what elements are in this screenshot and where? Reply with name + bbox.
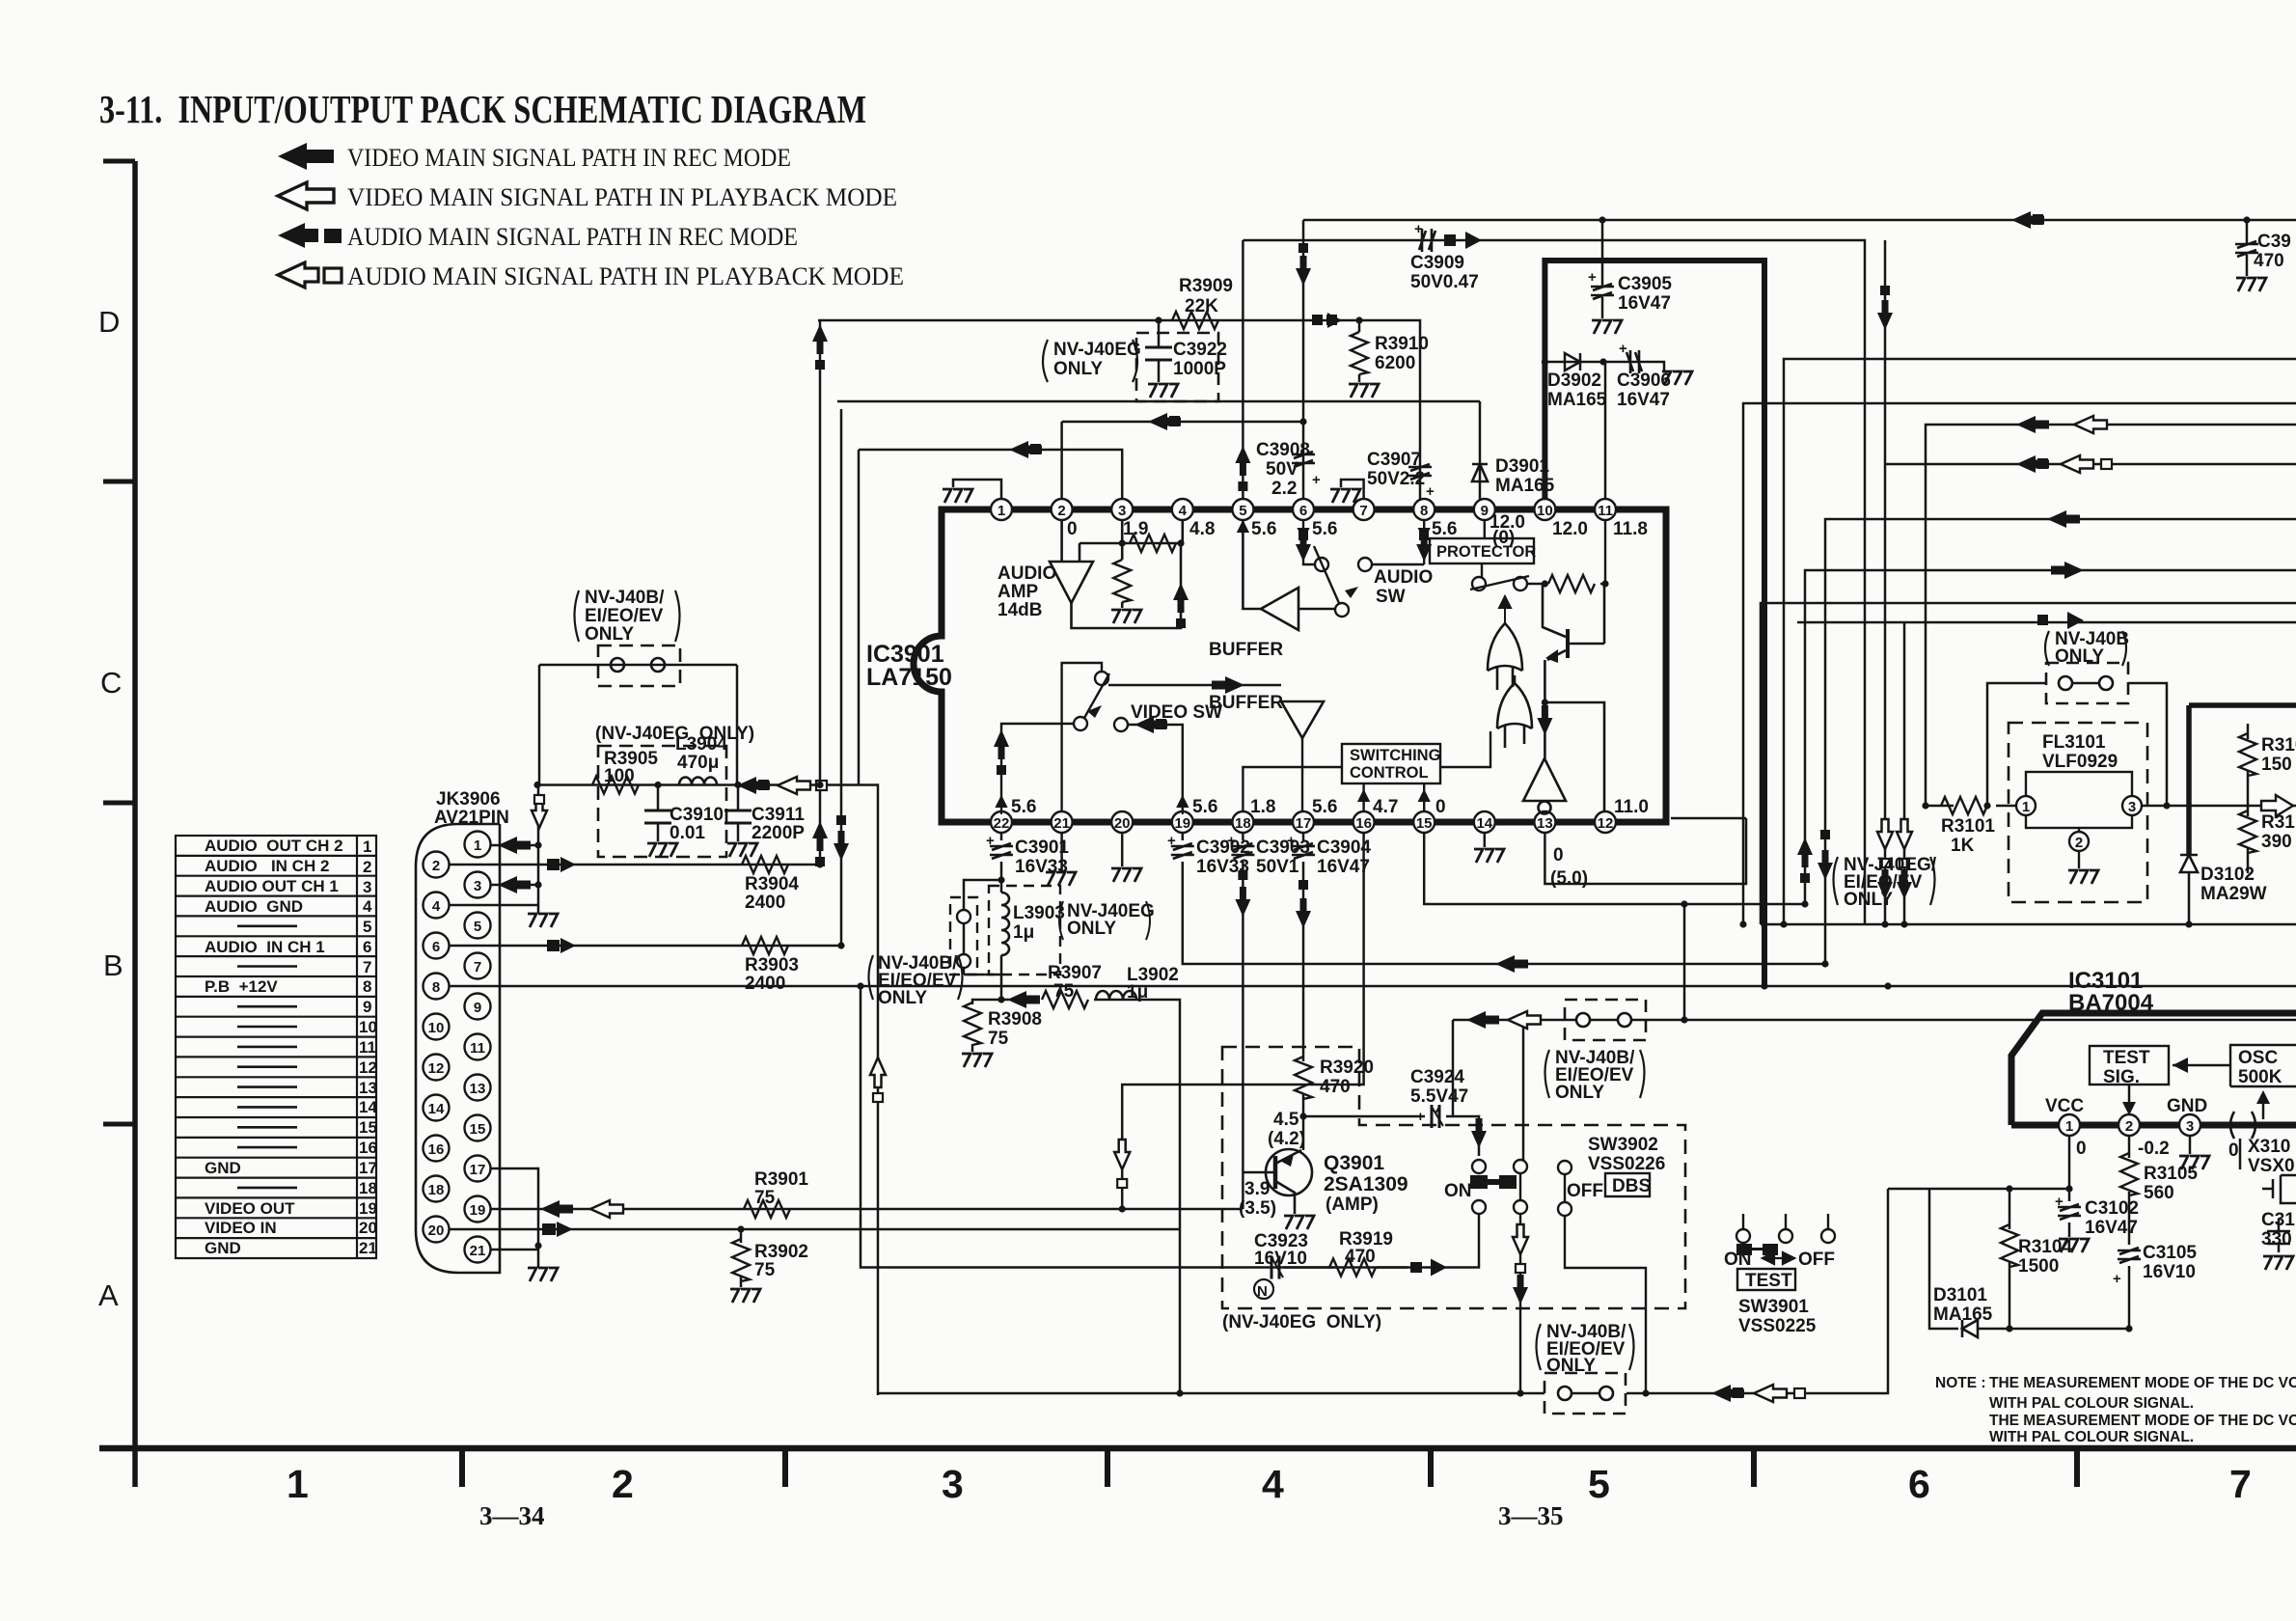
svg-text:16: 16 bbox=[359, 1139, 377, 1157]
svg-text:1: 1 bbox=[2065, 1118, 2073, 1135]
svg-text:TEST: TEST bbox=[1745, 1271, 1792, 1291]
TEST SIG to pin2 bbox=[2128, 1085, 2131, 1110]
internal resistors and ground pin3/pin4 bbox=[1111, 535, 1176, 623]
svg-text:ONLY: ONLY bbox=[1067, 919, 1116, 939]
svg-text:50V2.2: 50V2.2 bbox=[1367, 469, 1425, 489]
C3907 on pin8 wire bbox=[1408, 464, 1432, 480]
arrows y=332 bbox=[812, 313, 1342, 370]
svg-text:16V47: 16V47 bbox=[1317, 857, 1370, 877]
svg-text:3: 3 bbox=[2186, 1118, 2194, 1135]
svg-text:19: 19 bbox=[1174, 815, 1190, 832]
svg-text:16V47: 16V47 bbox=[1617, 390, 1670, 410]
svg-text:5.6: 5.6 bbox=[1192, 797, 1217, 817]
svg-text:16V47: 16V47 bbox=[2085, 1218, 2138, 1238]
svg-text:C3910: C3910 bbox=[670, 805, 724, 825]
svg-text:75: 75 bbox=[754, 1260, 776, 1280]
wire audio out node bbox=[537, 785, 878, 1396]
ground pin4 node bbox=[528, 905, 558, 927]
arrows y=445 y=466 bbox=[1009, 413, 1181, 458]
R3903 bbox=[742, 937, 788, 954]
svg-text:560: 560 bbox=[2144, 1183, 2174, 1203]
svg-text:17: 17 bbox=[470, 1162, 486, 1178]
break parens on pin row bbox=[2230, 1112, 2255, 1139]
wire pin17/pin21 GND bbox=[491, 1168, 539, 1250]
svg-text:+: + bbox=[2113, 1271, 2121, 1287]
svg-text:OFF: OFF bbox=[1798, 1250, 1835, 1270]
svg-text:11: 11 bbox=[470, 1040, 485, 1057]
wire node vertical x558 bbox=[537, 784, 540, 905]
svg-text:D3901: D3901 bbox=[1495, 456, 1549, 477]
wire bus G to right edge bbox=[1761, 603, 2296, 924]
svg-text:PROTECTOR: PROTECTOR bbox=[1436, 543, 1536, 561]
svg-text:1.8: 1.8 bbox=[1250, 797, 1275, 817]
video buffer triangle bbox=[1281, 701, 1324, 738]
svg-text:2: 2 bbox=[1057, 503, 1065, 519]
svg-text:MA165: MA165 bbox=[1933, 1305, 1993, 1325]
L3904 coil bbox=[679, 778, 717, 785]
svg-text:OSC: OSC bbox=[2238, 1048, 2278, 1068]
svg-text:EI/EO/EV: EI/EO/EV bbox=[585, 606, 664, 626]
svg-text:ONLY: ONLY bbox=[878, 988, 927, 1008]
svg-text:1: 1 bbox=[287, 1462, 309, 1506]
voltage labels bottom pins bbox=[1011, 797, 1649, 889]
svg-text:1μ: 1μ bbox=[1127, 982, 1148, 1003]
wire y416 to pin9 bbox=[837, 400, 1480, 403]
svg-text:3—35: 3—35 bbox=[1498, 1501, 1564, 1530]
svg-text:AUDIO IN CH 1: AUDIO IN CH 1 bbox=[205, 938, 325, 956]
pin name table bbox=[176, 836, 376, 1258]
svg-text:100: 100 bbox=[604, 766, 635, 786]
svg-text:(NV-J40EG ONLY): (NV-J40EG ONLY) bbox=[1222, 1312, 1381, 1333]
wire y1057 playback bbox=[1453, 1019, 2296, 1022]
FL3101 body with pins 1 2 3 bbox=[2016, 772, 2142, 868]
svg-text:7: 7 bbox=[1359, 503, 1367, 519]
wire IC3101 supply bbox=[1888, 1188, 2069, 1191]
svg-text:VSS0226: VSS0226 bbox=[1588, 1154, 1665, 1174]
frame left border line bbox=[132, 161, 138, 1487]
wire pin2 AUDIO IN CH2 bbox=[450, 864, 821, 866]
svg-text:8: 8 bbox=[363, 977, 371, 996]
D3902 C3906 stub bbox=[1544, 353, 1664, 499]
svg-text:SW: SW bbox=[1376, 587, 1406, 607]
svg-text:18: 18 bbox=[428, 1182, 445, 1198]
wire pin3 feed bbox=[859, 450, 1122, 784]
svg-text:VIDEO OUT: VIDEO OUT bbox=[205, 1199, 295, 1218]
svg-text:0.01: 0.01 bbox=[670, 823, 705, 843]
wire bus D to right edge bbox=[1825, 519, 2296, 964]
pin19 C3902 bbox=[1183, 833, 1825, 964]
TEST SIG block bbox=[2090, 1046, 2169, 1085]
C3910 bbox=[644, 785, 671, 842]
wire bus A to right edge bbox=[1743, 403, 2296, 924]
svg-text:NV-J40B/: NV-J40B/ bbox=[585, 588, 665, 608]
svg-text:LA7150: LA7150 bbox=[866, 664, 952, 691]
svg-text:0: 0 bbox=[2228, 1140, 2239, 1161]
ground pin17/21 node bbox=[528, 1246, 558, 1281]
thick rail pin10 bbox=[1544, 261, 1764, 986]
svg-text:ONLY: ONLY bbox=[1844, 890, 1893, 910]
svg-text:+: + bbox=[1619, 341, 1627, 357]
svg-text:ON: ON bbox=[1444, 1181, 1472, 1201]
svg-text:11.0: 11.0 bbox=[1614, 797, 1649, 817]
svg-text:15: 15 bbox=[359, 1118, 377, 1137]
svg-text:22K: 22K bbox=[1185, 296, 1218, 316]
svg-text:2: 2 bbox=[612, 1462, 634, 1506]
pin16 chain to video out bbox=[1122, 833, 1363, 1209]
D3901 on pin9 wire bbox=[1472, 464, 1488, 481]
or-gate 1 bbox=[1488, 623, 1522, 671]
svg-text:ONLY: ONLY bbox=[2055, 646, 2104, 667]
arrows on connector wires bbox=[498, 777, 886, 1237]
svg-text:C: C bbox=[100, 666, 122, 700]
svg-text:R3104: R3104 bbox=[2018, 1237, 2072, 1257]
svg-text:5: 5 bbox=[474, 919, 481, 935]
svg-text:470: 470 bbox=[1345, 1247, 1376, 1267]
hollow arrows on x910 vertical bbox=[870, 1058, 886, 1087]
wire pin15 bbox=[1424, 833, 1805, 904]
svg-text:7: 7 bbox=[474, 959, 481, 975]
video switch contacts bbox=[1001, 663, 1324, 811]
svg-text:ONLY: ONLY bbox=[1053, 359, 1103, 379]
svg-text:16V47: 16V47 bbox=[1618, 293, 1671, 314]
svg-text:5.6: 5.6 bbox=[1011, 797, 1036, 817]
svg-text:75: 75 bbox=[754, 1188, 776, 1208]
svg-text:P.B +12V: P.B +12V bbox=[205, 977, 278, 996]
junction dots bbox=[533, 782, 863, 1250]
svg-text:L3903: L3903 bbox=[1013, 903, 1065, 923]
svg-text:14dB: 14dB bbox=[998, 600, 1042, 620]
svg-text:21: 21 bbox=[470, 1243, 486, 1259]
svg-text:D3902: D3902 bbox=[1547, 371, 1601, 391]
svg-text:C3906: C3906 bbox=[1617, 371, 1671, 391]
arrows on y=228 right bbox=[2011, 211, 2044, 229]
svg-text:5: 5 bbox=[1588, 1462, 1610, 1506]
comparator triangle with bubble pin13 bbox=[1523, 758, 1566, 814]
svg-text:11: 11 bbox=[359, 1038, 376, 1057]
pin21 pin20 grounds inside bottom bbox=[1062, 833, 1123, 870]
jumper on y=1057 bbox=[1565, 1000, 1646, 1040]
svg-text:C3907: C3907 bbox=[1367, 450, 1421, 470]
switch SW3902 VSS0226 contacts bbox=[1472, 1160, 1646, 1393]
wire pin3 stub bbox=[491, 884, 539, 887]
wire bus E to right edge bbox=[1885, 240, 2296, 924]
svg-text:3: 3 bbox=[1118, 503, 1126, 519]
wire D3101 branch bbox=[1929, 1189, 2129, 1329]
svg-text:12: 12 bbox=[359, 1058, 377, 1077]
svg-text:3-11. INPUT/OUTPUT PACK SCHEM: 3-11. INPUT/OUTPUT PACK SCHEMATIC DIAGRA… bbox=[99, 87, 866, 131]
bold arrow on pin6 wire bbox=[1296, 243, 1311, 286]
svg-text:ONLY: ONLY bbox=[585, 624, 634, 645]
svg-text:4.8: 4.8 bbox=[1189, 519, 1215, 539]
svg-text:C3905: C3905 bbox=[1618, 274, 1672, 294]
svg-text:WITH PAL COLOUR SIGNAL.: WITH PAL COLOUR SIGNAL. bbox=[1989, 1429, 2194, 1445]
svg-text:(4.2): (4.2) bbox=[1268, 1129, 1305, 1149]
wire pin16 playback video bbox=[1122, 833, 1363, 1209]
svg-text:R3901: R3901 bbox=[754, 1169, 808, 1190]
R3920 bbox=[1295, 1057, 1312, 1099]
NV-J40B jumper bbox=[2046, 663, 2128, 703]
R3902 bbox=[732, 1229, 750, 1287]
svg-text:13: 13 bbox=[359, 1079, 377, 1097]
svg-text:3: 3 bbox=[2128, 799, 2136, 815]
svg-text:19: 19 bbox=[470, 1202, 486, 1219]
svg-text:1: 1 bbox=[998, 503, 1005, 519]
svg-text:8: 8 bbox=[1420, 503, 1428, 519]
svg-text:3: 3 bbox=[474, 878, 481, 894]
svg-text:2: 2 bbox=[2075, 835, 2083, 851]
wire y228 bus bbox=[1303, 219, 2296, 222]
svg-text:2.2: 2.2 bbox=[1271, 479, 1297, 499]
svg-text:5: 5 bbox=[1239, 503, 1246, 519]
svg-text:C3105: C3105 bbox=[2143, 1243, 2197, 1263]
wire pin1 stub bbox=[491, 844, 539, 847]
svg-text:+: + bbox=[1167, 833, 1176, 849]
svg-text:+: + bbox=[1227, 833, 1236, 849]
OSC 500K block bbox=[2230, 1045, 2296, 1086]
filter output arrows bbox=[737, 777, 770, 794]
svg-text:C3908: C3908 bbox=[1256, 440, 1310, 460]
svg-text:16V33: 16V33 bbox=[1015, 857, 1068, 877]
wire pin4 to ground bbox=[450, 904, 539, 907]
dash rows bbox=[237, 926, 297, 1188]
or-gate 2 bbox=[1497, 683, 1532, 728]
svg-text:21: 21 bbox=[359, 1239, 377, 1257]
right edge resistors bbox=[2247, 724, 2250, 873]
wire pin19 VIDEO OUT bbox=[491, 1208, 1244, 1211]
pin17 C3904 down to R3920 bbox=[1302, 833, 1305, 1150]
svg-text:R3105: R3105 bbox=[2144, 1164, 2198, 1184]
IC3901 pins bottom bbox=[991, 811, 1012, 833]
wire video in drop bbox=[1179, 1229, 1182, 1393]
svg-text:6: 6 bbox=[1299, 503, 1307, 519]
svg-text:VSS0225: VSS0225 bbox=[1738, 1316, 1817, 1336]
svg-text:9: 9 bbox=[1481, 503, 1489, 519]
svg-text:9: 9 bbox=[474, 1000, 481, 1016]
svg-text:C3911: C3911 bbox=[752, 805, 805, 825]
NV-J40EG filter dashed box bbox=[598, 746, 726, 857]
svg-text:THE MEASUREMENT MODE OF THE DC: THE MEASUREMENT MODE OF THE DC VOLTAGE O… bbox=[1989, 1413, 2296, 1429]
svg-text:7: 7 bbox=[2229, 1462, 2252, 1506]
svg-text:R3910: R3910 bbox=[1375, 334, 1429, 354]
svg-text:75: 75 bbox=[988, 1029, 1009, 1049]
svg-text:MA29W: MA29W bbox=[2200, 884, 2267, 904]
svg-text:18: 18 bbox=[359, 1179, 377, 1197]
svg-text:17: 17 bbox=[359, 1159, 377, 1177]
svg-text:VIDEO MAIN SIGNAL PATH IN REC: VIDEO MAIN SIGNAL PATH IN REC MODE bbox=[347, 144, 791, 172]
pin14 ground below bbox=[1484, 833, 1487, 847]
svg-text:C3901: C3901 bbox=[1015, 838, 1069, 858]
svg-text:14: 14 bbox=[428, 1101, 445, 1117]
frame row ticks bbox=[103, 161, 135, 1124]
svg-text:3: 3 bbox=[363, 878, 371, 896]
diode D3101 MA165 bbox=[1962, 1320, 1978, 1337]
svg-text:1K: 1K bbox=[1951, 836, 1975, 856]
wire vertical audio ch1 bbox=[840, 409, 843, 946]
svg-text:NV-J40EG: NV-J40EG bbox=[1053, 340, 1141, 360]
C3911 bbox=[724, 785, 752, 842]
H bracket bbox=[1470, 1175, 1517, 1189]
NV-J40B jumper box top bbox=[598, 646, 680, 686]
arrows on SW3902 drop bbox=[1513, 1224, 1528, 1305]
svg-text:0: 0 bbox=[2076, 1139, 2087, 1159]
pin13 chain right bbox=[1544, 818, 1746, 884]
R3910 bbox=[1358, 320, 1361, 382]
svg-text:15: 15 bbox=[470, 1121, 486, 1138]
svg-text:OFF: OFF bbox=[1567, 1181, 1603, 1201]
switch SW3901 VSS0225 contacts bbox=[1736, 1214, 1835, 1243]
svg-text:1μ: 1μ bbox=[1013, 922, 1034, 943]
wire pin13 5V bbox=[1544, 818, 1746, 884]
svg-text:+: + bbox=[1414, 221, 1423, 237]
svg-text:R3902: R3902 bbox=[754, 1242, 808, 1262]
L3902 bbox=[1096, 991, 1136, 1000]
arrows / C3909 on y=249 bbox=[1419, 229, 1435, 252]
svg-text:20: 20 bbox=[359, 1219, 377, 1237]
svg-text:-0.2: -0.2 bbox=[2138, 1139, 2170, 1159]
frame column ticks bbox=[462, 1448, 2077, 1487]
svg-text:SW3902: SW3902 bbox=[1588, 1135, 1658, 1155]
svg-text:5.6: 5.6 bbox=[1432, 519, 1457, 539]
svg-text:AUDIO IN CH 2: AUDIO IN CH 2 bbox=[205, 857, 329, 875]
switching control block bbox=[1342, 744, 1440, 783]
wire pin1 and pin7 ground stubs bbox=[953, 480, 1364, 499]
wire audio rec bus y332 bbox=[818, 320, 1420, 499]
svg-text:D3102: D3102 bbox=[2200, 865, 2255, 885]
svg-text:2200P: 2200P bbox=[752, 823, 805, 843]
svg-text:12: 12 bbox=[1598, 815, 1614, 832]
svg-text:(3.5): (3.5) bbox=[1239, 1198, 1276, 1219]
IC3901 pins 1-11 top, 22-12 bottom bbox=[991, 499, 1616, 833]
svg-text:5.6: 5.6 bbox=[1312, 519, 1337, 539]
svg-text:6: 6 bbox=[1908, 1462, 1930, 1506]
svg-text:VIDEO IN: VIDEO IN bbox=[205, 1219, 277, 1237]
C3924 wire bbox=[1303, 1116, 1479, 1156]
transistor inside IC3901 bbox=[1543, 584, 1566, 637]
svg-text:B: B bbox=[103, 948, 123, 982]
bold arrow on pin5 wire bbox=[1235, 446, 1250, 491]
svg-text:ON: ON bbox=[1724, 1250, 1752, 1270]
svg-text:1000P: 1000P bbox=[1173, 359, 1226, 379]
svg-text:14: 14 bbox=[1476, 815, 1492, 832]
svg-text:1: 1 bbox=[2022, 799, 2030, 815]
svg-text:CONTROL: CONTROL bbox=[1350, 764, 1429, 782]
big dashed box bbox=[1222, 1047, 1685, 1308]
svg-text:(5.0): (5.0) bbox=[1550, 868, 1588, 889]
R3907 bbox=[1042, 991, 1088, 1008]
svg-text:GND: GND bbox=[205, 1239, 241, 1257]
svg-text:2: 2 bbox=[432, 858, 440, 874]
svg-text:N: N bbox=[1257, 1283, 1268, 1300]
audio amp triangle inside IC3901 bbox=[1050, 520, 1183, 628]
svg-text:50V: 50V bbox=[1266, 459, 1298, 480]
C3922 dashed box NV-J40EG bbox=[1136, 320, 1218, 401]
wire bus F to right edge bbox=[1926, 425, 2296, 806]
svg-text:C3922: C3922 bbox=[1173, 340, 1227, 360]
C3923 R3919 on +12V wire bbox=[1271, 1256, 1283, 1279]
svg-text:2SA1309: 2SA1309 bbox=[1324, 1173, 1408, 1195]
svg-text:5.6: 5.6 bbox=[1251, 519, 1276, 539]
svg-text:17: 17 bbox=[1296, 815, 1312, 832]
svg-text:AUDIO: AUDIO bbox=[1374, 567, 1433, 588]
wire bus H to right edge bbox=[1797, 622, 2296, 924]
svg-text:D3101: D3101 bbox=[1933, 1285, 1987, 1305]
svg-text:500K: 500K bbox=[2238, 1067, 2282, 1087]
svg-text:JK3906: JK3906 bbox=[436, 789, 501, 810]
protector block bbox=[1430, 538, 1534, 563]
svg-text:4: 4 bbox=[1262, 1462, 1284, 1506]
svg-text:X310: X310 bbox=[2248, 1137, 2290, 1157]
svg-text:AUDIO: AUDIO bbox=[998, 563, 1056, 584]
svg-text:AUDIO GND: AUDIO GND bbox=[205, 897, 303, 916]
svg-text:AUDIO OUT CH 2: AUDIO OUT CH 2 bbox=[205, 837, 343, 855]
svg-text:10: 10 bbox=[428, 1020, 445, 1036]
svg-text:1: 1 bbox=[474, 838, 481, 854]
svg-text:75: 75 bbox=[1053, 981, 1075, 1002]
svg-text:16V10: 16V10 bbox=[2143, 1262, 2196, 1282]
svg-text:WITH PAL COLOUR SIGNAL.: WITH PAL COLOUR SIGNAL. bbox=[1989, 1395, 2194, 1412]
svg-text:3: 3 bbox=[942, 1462, 964, 1506]
svg-text:5.6: 5.6 bbox=[1312, 797, 1337, 817]
svg-text:6: 6 bbox=[363, 938, 371, 956]
C3913 chain at right edge on y=228 bbox=[2243, 216, 2250, 223]
wire bus B to right edge bbox=[1784, 359, 2296, 924]
svg-text:6200: 6200 bbox=[1375, 353, 1415, 373]
svg-text:+: + bbox=[1312, 472, 1321, 488]
svg-text:ONLY: ONLY bbox=[1546, 1356, 1596, 1376]
svg-text:10: 10 bbox=[359, 1018, 377, 1036]
svg-text:5.5V47: 5.5V47 bbox=[1410, 1086, 1468, 1107]
wire 12V thick rail pin10 bbox=[1544, 261, 1764, 986]
pin18 C3903 bbox=[1242, 833, 1244, 1209]
svg-text:13: 13 bbox=[470, 1081, 486, 1097]
svg-text:9: 9 bbox=[363, 998, 371, 1016]
pin15 chain right bbox=[1424, 833, 1805, 904]
wire pin6 vertical bbox=[1302, 220, 1305, 499]
svg-text:C3924: C3924 bbox=[1410, 1067, 1464, 1087]
svg-text:SWITCHING: SWITCHING bbox=[1350, 747, 1440, 764]
svg-text:3.9: 3.9 bbox=[1244, 1179, 1270, 1199]
voltage labels top pins bbox=[1067, 512, 1648, 548]
R3904 bbox=[742, 856, 788, 873]
svg-text:AUDIO MAIN SIGNAL PATH IN PLAY: AUDIO MAIN SIGNAL PATH IN PLAYBACK MODE bbox=[347, 262, 904, 290]
svg-text:4: 4 bbox=[363, 897, 372, 916]
bottom long wire y=1444 bbox=[878, 1189, 1888, 1393]
svg-text:21: 21 bbox=[1053, 815, 1070, 832]
svg-text:R3903: R3903 bbox=[745, 955, 799, 975]
svg-text:D: D bbox=[98, 305, 120, 339]
svg-text:L3904: L3904 bbox=[675, 734, 727, 755]
svg-text:4: 4 bbox=[432, 898, 441, 915]
svg-text:+: + bbox=[1416, 1109, 1425, 1125]
svg-text:2400: 2400 bbox=[745, 974, 785, 994]
wire pin5 vertical bbox=[1242, 240, 1244, 499]
op-amp IC U1 IC3901 LA7150 body bbox=[914, 509, 1666, 822]
svg-text:4: 4 bbox=[1179, 503, 1188, 519]
svg-text:C39: C39 bbox=[2257, 232, 2291, 252]
svg-text:VSX0: VSX0 bbox=[2248, 1156, 2295, 1176]
svg-text:ONLY: ONLY bbox=[1555, 1083, 1604, 1103]
audio buffer triangle bbox=[1243, 520, 1335, 630]
wire y249 bus bbox=[1243, 240, 1865, 924]
wire pin9 vertical bbox=[1479, 401, 1482, 499]
pin22 C3901 + L3903 cluster bbox=[964, 833, 1180, 1229]
svg-text:3—34: 3—34 bbox=[479, 1501, 545, 1530]
svg-text:BUFFER: BUFFER bbox=[1209, 640, 1283, 660]
svg-text:12.0: 12.0 bbox=[1552, 519, 1588, 539]
svg-text:R3907: R3907 bbox=[1048, 963, 1102, 983]
svg-text:R3101: R3101 bbox=[1941, 816, 1995, 837]
svg-text:19: 19 bbox=[359, 1199, 377, 1218]
